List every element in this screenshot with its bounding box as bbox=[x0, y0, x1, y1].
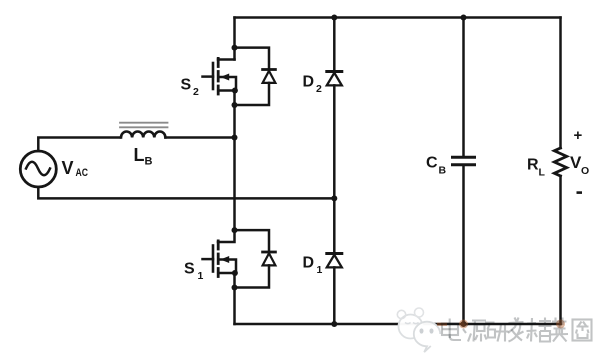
svg-text:B: B bbox=[439, 165, 447, 177]
capacitor CB bbox=[453, 157, 475, 165]
node S2 drain bbox=[232, 45, 238, 51]
svg-text:V: V bbox=[62, 158, 74, 178]
svg-text:L: L bbox=[539, 167, 546, 179]
watermark tint junction RL bbox=[556, 320, 565, 329]
inductor LB bbox=[120, 123, 168, 138]
transistor S2 bbox=[203, 58, 237, 94]
wire S branch middle bbox=[233, 91, 236, 231]
label VAC bbox=[62, 158, 89, 179]
node bottom CB junction bbox=[461, 321, 467, 327]
wire right branch upper bbox=[559, 18, 562, 149]
label CB bbox=[426, 155, 447, 177]
svg-text:2: 2 bbox=[316, 83, 322, 95]
watermark text bbox=[442, 318, 592, 342]
resistor RL bbox=[554, 148, 566, 176]
node S1 branch bottom bbox=[232, 285, 238, 291]
wire S1 body diode branch bbox=[235, 230, 276, 287]
svg-text:O: O bbox=[581, 165, 589, 177]
label S1 bbox=[184, 261, 204, 283]
node S1 drain bbox=[232, 227, 238, 233]
transistor S1 bbox=[203, 231, 237, 277]
wire ac top lead bbox=[38, 138, 120, 152]
wire ac top to node bbox=[166, 136, 235, 139]
svg-text:L: L bbox=[134, 145, 145, 165]
node S1 source bbox=[232, 270, 238, 276]
watermark logo bbox=[397, 308, 440, 352]
wire S branch bottom bbox=[233, 273, 236, 324]
svg-text:1: 1 bbox=[317, 264, 323, 276]
wire top bus bbox=[235, 16, 561, 19]
char quan bbox=[573, 320, 592, 341]
node top D junction bbox=[331, 15, 337, 21]
label VO bbox=[570, 153, 589, 177]
svg-text:1: 1 bbox=[198, 270, 204, 282]
wire ac bottom lead bbox=[38, 187, 334, 198]
wire D branch lower bbox=[333, 267, 336, 324]
label LB bbox=[134, 145, 153, 168]
char ying bbox=[551, 318, 568, 342]
svg-text:D: D bbox=[303, 74, 315, 91]
svg-text:D: D bbox=[303, 255, 315, 272]
wire D branch upper bbox=[333, 18, 336, 72]
node S2 source bbox=[232, 88, 238, 94]
label D2 bbox=[303, 74, 323, 96]
svg-text:2: 2 bbox=[193, 86, 199, 98]
watermark tint junction CB bbox=[459, 320, 468, 329]
wire S branch top bbox=[233, 18, 236, 60]
label minus bbox=[577, 191, 583, 194]
diode D1 bbox=[327, 254, 342, 268]
svg-text:B: B bbox=[145, 156, 153, 168]
node S2 branch bottom bbox=[232, 102, 238, 108]
wire right branch lower bbox=[559, 176, 562, 324]
label S2 bbox=[181, 77, 200, 99]
diode D2 bbox=[327, 72, 342, 86]
watermark tint wire start bbox=[437, 323, 447, 326]
char jing bbox=[527, 318, 552, 342]
svg-text:C: C bbox=[426, 155, 438, 172]
wire CB branch lower bbox=[462, 166, 465, 324]
wire CB branch upper bbox=[462, 18, 465, 158]
node top CB junction bbox=[461, 15, 467, 21]
char yuan bbox=[463, 321, 487, 342]
wire bottom bus bbox=[235, 323, 561, 326]
svg-text:+: + bbox=[574, 127, 583, 144]
wire D branch middle bbox=[333, 85, 336, 253]
svg-text:AC: AC bbox=[76, 167, 89, 179]
node bottom D junction bbox=[331, 321, 337, 327]
node LB input bbox=[232, 135, 238, 141]
char fa bbox=[508, 318, 524, 342]
node ac bottom junction bbox=[331, 195, 337, 201]
char yan bbox=[485, 323, 509, 342]
label D1 bbox=[303, 255, 323, 277]
ac source VAC bbox=[20, 151, 56, 187]
wire S2 body diode branch bbox=[235, 48, 276, 105]
svg-text:R: R bbox=[527, 157, 539, 174]
svg-text:S: S bbox=[184, 261, 195, 278]
svg-text:S: S bbox=[181, 77, 192, 94]
char dian bbox=[442, 319, 461, 341]
label RL bbox=[527, 157, 546, 179]
